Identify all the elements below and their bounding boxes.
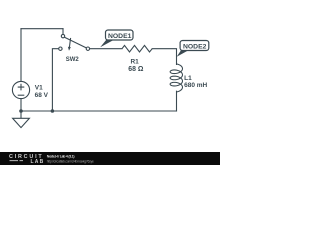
svg-text:680 mH: 680 mH	[184, 82, 207, 89]
wire: drop to SW2 top throw	[62, 29, 64, 35]
svg-text:R1: R1	[130, 58, 139, 65]
wire: R1 to NODE2 corner and down to L1	[152, 49, 176, 65]
svg-text:SW2: SW2	[66, 57, 80, 63]
svg-text:V1: V1	[35, 85, 43, 92]
wire: bottom rail	[21, 110, 177, 112]
svg-text:NODE1: NODE1	[108, 33, 132, 40]
junction dot at ground node	[19, 109, 23, 113]
svg-text:68 Ω: 68 Ω	[128, 66, 144, 73]
junction dot at SW2 lower throw return	[51, 109, 55, 113]
SW2 bottom throw terminal	[59, 47, 62, 50]
inductor L1	[170, 64, 182, 92]
V1 plus sign	[18, 84, 25, 91]
SW2 common terminal	[86, 47, 89, 50]
voltage source V1	[12, 81, 29, 98]
switch SW2	[59, 34, 90, 50]
svg-text:http://circuitlab.com/c/4bmaxk: http://circuitlab.com/c/4bmaxkg76sye	[47, 159, 94, 163]
wire: V1 top lead up the left side	[20, 29, 22, 82]
wire: SW2 bottom throw to left then down	[52, 49, 58, 111]
resistor R1	[122, 45, 152, 52]
svg-text:L1: L1	[184, 75, 192, 82]
node NODE2 flag	[177, 41, 209, 57]
svg-text:68 V: 68 V	[35, 92, 49, 99]
footer bar	[0, 152, 220, 165]
SW2 actuator arrow	[69, 38, 70, 48]
V1 minus sign	[18, 94, 25, 96]
SW2 blade	[65, 37, 87, 48]
wire: top rail	[21, 28, 63, 30]
footer CircuitLab logo	[9, 154, 44, 165]
node NODE1 flag	[100, 30, 133, 47]
wire: V1 bottom lead	[20, 99, 22, 111]
wire: SW2 common to R1	[90, 48, 122, 50]
svg-text:LAB: LAB	[31, 159, 45, 165]
svg-text:Node.H / Lab 4 (3.1): Node.H / Lab 4 (3.1)	[47, 155, 75, 159]
ground	[13, 111, 30, 128]
wire: L1 bottom down to bottom rail	[176, 91, 178, 111]
SW2 top throw terminal	[61, 34, 64, 37]
svg-text:NODE2: NODE2	[183, 44, 207, 51]
